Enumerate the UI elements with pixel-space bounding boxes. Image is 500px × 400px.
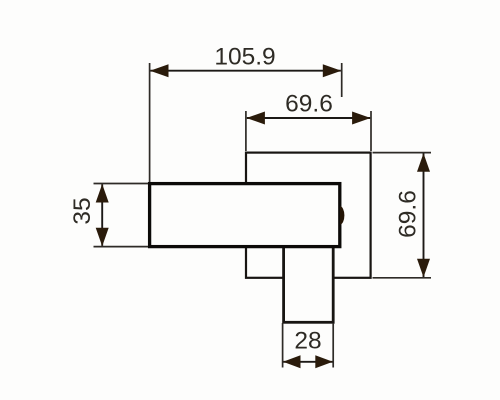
dim 28 line — [283, 361, 332, 363]
square rosette plate (69.6 x 69.6) — [246, 153, 371, 278]
dim 69.6 top line — [247, 117, 370, 119]
dim 105.9 arrow right — [323, 64, 342, 77]
dim 105.9 line — [151, 70, 341, 72]
dim 105.9 extension line left — [149, 63, 151, 182]
dim 28 extension line right — [332, 323, 334, 368]
dim 69.6 top extension line right — [370, 111, 372, 151]
dim 69.6 right arrow up — [417, 153, 430, 172]
dim 105.9 extension line right — [341, 63, 343, 97]
dim 69.6 right arrow down — [417, 259, 430, 278]
svg-text:105.9: 105.9 — [214, 44, 275, 71]
dim 35 extension line bottom — [94, 246, 149, 248]
dim 69.6 right extension line top — [373, 152, 432, 154]
svg-text:69.6: 69.6 — [395, 190, 422, 238]
dim 69.6 top arrow right — [352, 112, 371, 125]
svg-text:69.6: 69.6 — [285, 90, 333, 117]
dim 69.6 right extension line bottom — [373, 277, 432, 279]
lever handle body (105.9 x 35) — [150, 184, 340, 247]
bearing bump on lever right edge — [340, 206, 344, 224]
dim 35 arrow up — [96, 184, 109, 203]
svg-text:28: 28 — [294, 328, 321, 355]
svg-text:35: 35 — [69, 197, 96, 224]
dim 28 extension line left — [282, 323, 284, 368]
dim 69.6 right line — [423, 154, 425, 278]
dim 35 extension line top — [94, 183, 149, 185]
dim 69.6 top extension line left — [245, 111, 247, 151]
dim 35 arrow down — [96, 228, 109, 247]
dim 105.9 arrow left — [150, 64, 169, 77]
dim 35 line — [101, 184, 103, 246]
dim 28 arrow left — [283, 355, 301, 368]
spindle housing (28 wide, below plate) — [284, 240, 334, 322]
dim 69.6 top arrow left — [246, 112, 265, 125]
dim 28 arrow right — [315, 355, 333, 368]
